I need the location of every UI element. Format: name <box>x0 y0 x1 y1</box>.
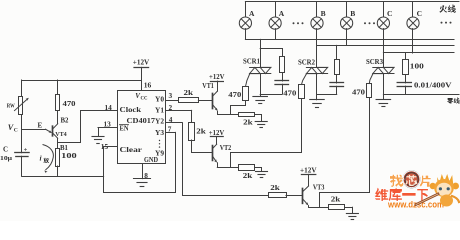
lamp C1 <box>377 2 392 29</box>
svg-text:0.01/400V: 0.01/400V <box>414 82 452 90</box>
wire net B <box>317 45 454 47</box>
ground VT3 <box>346 207 358 219</box>
ground EN pin <box>92 136 104 138</box>
svg-text:+12V: +12V <box>300 165 317 174</box>
wire lamp C1 down to SCR3 anode <box>383 29 385 68</box>
ground VT1 <box>255 115 267 128</box>
ground SCR2 <box>310 99 324 101</box>
lamp B2 <box>341 2 356 29</box>
capacitor snubber SCR2 <box>317 75 344 95</box>
resistor snubber SCR2 <box>335 60 340 75</box>
dots more lamps group B <box>364 22 375 24</box>
svg-text:+12V: +12V <box>209 72 225 81</box>
pin 3 line + label <box>166 91 180 101</box>
pin 2 line + label <box>166 103 192 112</box>
triac SCR1 <box>250 67 271 73</box>
svg-text:+12V: +12V <box>209 128 225 137</box>
svg-text:16: 16 <box>144 80 152 89</box>
resistor 2k VT3 emitter <box>329 205 345 210</box>
wire net A drop to SCR1 <box>260 39 262 67</box>
svg-text:2k: 2k <box>196 126 207 135</box>
svg-text:470: 470 <box>283 89 296 98</box>
svg-text:2k: 2k <box>331 195 342 204</box>
triac SCR2 <box>306 67 327 73</box>
discharge current arrow i fang <box>43 145 53 170</box>
ground pin 8 <box>134 178 151 180</box>
svg-text:SCR2: SCR2 <box>298 59 315 67</box>
svg-text:CC: CC <box>141 97 148 102</box>
wire lamp C2 to net C <box>412 29 414 53</box>
wire Y2 to VT3 base <box>183 123 270 196</box>
svg-text:7: 7 <box>168 124 172 133</box>
lamp A1 <box>239 2 255 29</box>
resistor 2k (Y2 base) <box>269 193 303 198</box>
svg-text:2k: 2k <box>243 118 254 127</box>
svg-text:470: 470 <box>352 88 365 97</box>
wire clock: B1 node to pin14 <box>58 111 118 143</box>
svg-text:VT4: VT4 <box>55 131 67 138</box>
dots more lamps group C <box>441 22 452 24</box>
svg-text:C: C <box>3 145 8 153</box>
transistor VT3 <box>303 186 310 207</box>
wire VT2 emitter <box>217 167 261 169</box>
svg-text:B2: B2 <box>61 118 70 125</box>
node Vc label <box>8 123 18 134</box>
svg-text:470: 470 <box>228 90 241 99</box>
capacitor C 10u <box>15 129 29 176</box>
UJT VT4 <box>46 124 58 138</box>
wire net A <box>245 39 454 41</box>
svg-text:B: B <box>321 9 326 18</box>
svg-text:Y9: Y9 <box>155 148 164 157</box>
svg-text:+: + <box>24 146 28 153</box>
wire Y3 feedback riser <box>175 132 177 192</box>
svg-text:2k: 2k <box>270 183 281 192</box>
net label 零线 <box>447 98 453 104</box>
svg-text:3: 3 <box>169 91 173 100</box>
wire neutral bus 零线 <box>383 94 459 96</box>
svg-text:CD4017: CD4017 <box>127 116 156 125</box>
svg-text:VT3: VT3 <box>313 184 325 191</box>
transistor VT2 <box>213 144 219 167</box>
label i fang <box>40 154 50 164</box>
watermark dzsc logo <box>375 171 459 209</box>
pin 13 line + label <box>98 119 118 136</box>
svg-text:VT1: VT1 <box>202 83 214 90</box>
power +12V VT2 <box>209 128 225 144</box>
svg-text:SCR3: SCR3 <box>366 58 383 66</box>
svg-text:Clock: Clock <box>120 105 143 114</box>
wire SCR1 cathode <box>260 74 262 97</box>
ground SCR1 <box>253 96 268 98</box>
wire VT3 to SCR3 gate resistor <box>320 98 370 208</box>
snubber branch SCR1 <box>260 49 282 57</box>
svg-text:C: C <box>417 9 422 18</box>
svg-text:A: A <box>279 9 285 18</box>
wire lamp A1 to net A <box>245 29 247 40</box>
svg-text:13: 13 <box>104 119 112 128</box>
wire +12V rail left <box>22 80 142 82</box>
wire lamp A2 to net A <box>275 29 277 40</box>
svg-text:+12V: +12V <box>133 58 150 67</box>
svg-text:100: 100 <box>410 61 424 70</box>
dots more lamps group A <box>293 22 304 24</box>
wire lamp B1 down to SCR2 anode <box>316 29 318 68</box>
label VCC <box>135 92 148 101</box>
label EN with overline <box>120 124 129 132</box>
power +12V chip supply <box>133 58 150 91</box>
svg-text:Y1: Y1 <box>155 105 164 114</box>
pin 7 line + label <box>166 124 176 133</box>
svg-text:EN: EN <box>120 124 129 132</box>
ground VT2 <box>256 168 268 178</box>
power +12V VT1 <box>209 72 225 91</box>
resistor 2k VT2 emitter <box>239 165 255 171</box>
resistor 2k VT1 emitter <box>239 113 255 117</box>
lamp B1 <box>311 2 326 29</box>
resistor 470 SCR1 gate <box>243 74 250 101</box>
wire Clear net down <box>103 147 105 193</box>
resistor 470 (B2 pull-up) <box>56 80 60 124</box>
wire VT1 emitter <box>218 114 261 116</box>
svg-text:RW: RW <box>7 103 16 110</box>
capacitor 0.01/400V <box>397 75 411 95</box>
wire VT1 to gate resistor <box>231 100 246 115</box>
capacitor snubber SCR1 <box>260 73 288 95</box>
svg-text:470: 470 <box>63 99 76 108</box>
lamp C2 <box>407 2 422 29</box>
svg-text:SCR1: SCR1 <box>243 57 260 65</box>
dots outputs Y4..Y8 <box>159 140 160 148</box>
wire net C <box>383 52 454 54</box>
wire oscillator bottom rail <box>22 176 104 178</box>
resistor 2k (Y1 base) <box>189 110 213 152</box>
svg-text:2k: 2k <box>184 88 195 97</box>
svg-text:10μ: 10μ <box>0 155 12 162</box>
resistor 100 snubber <box>403 53 409 75</box>
wire VT3 emitter <box>309 207 353 209</box>
triac SCR3 <box>373 67 394 73</box>
pin 4 line + label <box>166 115 183 124</box>
svg-text:100: 100 <box>61 151 77 160</box>
ground SCR3 <box>376 99 391 101</box>
resistor snubber SCR1 <box>280 57 285 73</box>
potentiometer RW <box>15 80 30 129</box>
IC U1 CD4017 box <box>118 91 166 164</box>
wire hot bus 火线 top <box>245 1 459 3</box>
svg-text:Y3: Y3 <box>155 128 164 137</box>
wire SCR3 cathode <box>383 74 385 100</box>
svg-text:14: 14 <box>105 103 113 112</box>
svg-text:Clear: Clear <box>120 145 143 154</box>
power +12V VT3 <box>300 165 317 186</box>
net label 火线 <box>439 5 447 12</box>
resistor 100 (B1) <box>56 138 60 176</box>
resistor 2k (Y0 base) <box>179 98 212 103</box>
svg-text:2k: 2k <box>243 171 254 180</box>
pin 15 line + label <box>101 142 118 151</box>
wire lamp B2 to net B <box>346 29 348 46</box>
svg-text:C: C <box>14 128 18 134</box>
wire VT2 to SCR2 gate resistor <box>231 99 302 168</box>
svg-text:Y0: Y0 <box>155 95 164 104</box>
wire SCR2 cathode <box>316 74 318 100</box>
snubber branch SCR2 <box>336 45 338 59</box>
svg-text:A: A <box>249 9 255 18</box>
pin 8 stub + label <box>143 164 149 181</box>
svg-text:C: C <box>387 9 392 18</box>
resistor 470 SCR3 gate <box>367 74 374 98</box>
svg-text:VT2: VT2 <box>220 145 232 152</box>
resistor 470 SCR2 gate <box>299 74 307 99</box>
svg-text:GND: GND <box>144 157 158 164</box>
wire Vc to UJT emitter <box>22 129 46 131</box>
svg-text:B: B <box>350 9 355 18</box>
svg-text:E: E <box>38 121 43 129</box>
svg-text:Y2: Y2 <box>155 117 164 126</box>
wire Y3 feedback bottom <box>104 192 176 194</box>
transistor VT1 <box>213 91 219 114</box>
lamp A2 <box>269 2 285 29</box>
